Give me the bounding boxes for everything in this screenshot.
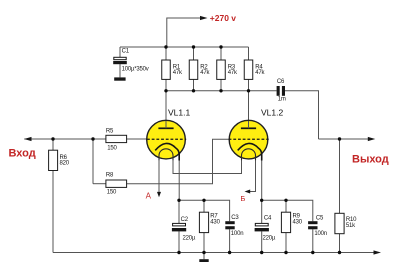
svg-text:VL1.1: VL1.1 [168,107,190,117]
wire C5 bottom lead [312,229,314,252]
tube VL1.1 [147,120,187,160]
svg-text:C4: C4 [264,216,272,222]
svg-text:150: 150 [107,145,117,151]
svg-text:C2: C2 [181,217,189,223]
wire output line [319,138,372,140]
svg-text:47k: 47k [255,70,265,76]
resistor R7 430 [199,212,220,232]
svg-text:150: 150 [107,190,117,196]
svg-text:220µ: 220µ [183,235,196,241]
wire R1 leads [165,47,167,60]
node dots ground rail [177,251,341,254]
svg-text:430: 430 [293,219,303,225]
capacitor C2 220u electrolytic [172,200,196,241]
wire VL1.2 heater leg to point B [250,156,256,192]
svg-text:220µ: 220µ [263,235,276,241]
wire R7 leads [203,200,205,212]
svg-text:47k: 47k [228,70,238,76]
wire anode rail [166,90,277,92]
grid VL1.1 [147,138,186,140]
grid VL1.2 [229,138,269,140]
node dots cathode network rails [177,199,287,202]
resistor R5 150 [106,128,127,151]
wire VL1.1 heater leg to point A [158,156,160,193]
wire ground symbol stub [203,253,205,260]
arrow ground rail end [374,250,382,254]
wire R9 leads [285,200,287,212]
envelope VL1.1 [147,120,186,159]
svg-text:Выход: Выход [352,153,389,165]
wire input line [24,138,106,140]
capacitor C3 100n [225,215,243,237]
wire R6 bottom lead to ground rail [52,171,54,253]
wire VL1.1 anode lead [165,91,167,121]
node dots top rail [164,45,222,48]
wire VL1.1 cathode lead [178,153,180,200]
node dots input line [51,137,94,140]
svg-text:+270 v: +270 v [210,13,237,23]
wire C2 bottom lead [178,231,180,252]
svg-text:100µ*350v: 100µ*350v [122,66,149,72]
wire R8 branch vertical [92,139,94,184]
cathode VL1.2 [238,143,262,160]
svg-text:R5: R5 [106,128,114,134]
wire R6 top lead [52,139,54,150]
node dot output line [338,137,341,140]
svg-text:C6: C6 [277,79,285,85]
svg-text:51k: 51k [346,223,356,229]
ground symbol C1 [114,77,125,80]
anode VL1.2 [241,127,256,129]
wire R10 top lead [339,139,341,213]
wire VL1.2 cathode lead [261,153,263,200]
resistor R10 51k [335,213,357,233]
svg-text:47k: 47k [173,70,183,76]
resistor R1 47k [162,60,183,79]
capacitor C4 220u electrolytic [255,200,276,241]
resistor R3 47k [217,60,238,79]
svg-text:430: 430 [210,219,220,225]
wire VL1.2 anode lead [248,91,250,121]
svg-text:VL1.2: VL1.2 [261,107,283,117]
capacitor C1 (electrolytic 100u/350v) [113,48,149,72]
resistor R8 150 [106,173,127,196]
wire heater link VL1.1 to VL1.2 [173,156,242,174]
arrow point A [157,192,161,197]
svg-text:100n: 100n [231,231,244,237]
svg-text:C3: C3 [231,215,239,221]
capacitor C5 100n [308,216,327,237]
resistor R6 820 [49,150,70,170]
wire R4 leads [248,47,250,60]
wire R5 to VL1.1 grid [127,138,148,140]
svg-text:C5: C5 [316,216,324,222]
arrow input [24,137,32,141]
wire C1 top stub [119,47,121,57]
wire R2 leads [193,47,195,60]
arrow point Б [245,190,251,194]
node dots anode rail [164,89,250,92]
resistor R4 47k [244,60,265,79]
envelope VL1.2 [229,120,268,159]
wire top supply rail [120,46,249,48]
resistor R2 47k [189,60,210,79]
wire C1 bottom lead [119,64,121,77]
heater VL1.1 [159,149,173,160]
wire C4 bottom lead [261,231,263,252]
wire +270V stub vertical [167,18,203,47]
svg-text:C1: C1 [122,48,130,54]
svg-text:1m: 1m [278,96,286,102]
wire R3 leads [220,47,222,60]
arrow output [368,137,376,141]
tube VL1.2 [229,120,269,160]
heater VL1.2 [242,149,256,160]
wire R8 to VL1.2 grid [127,139,229,183]
arrow +270 v [200,16,208,20]
wire C6 right to corner then down to output [285,91,319,139]
svg-text:А: А [146,191,152,200]
svg-text:Б: Б [240,194,245,203]
anode VL1.1 [158,127,173,129]
svg-text:R8: R8 [106,173,114,179]
cathode VL1.1 [155,143,179,160]
wire cathode network 2 rail [262,200,313,221]
svg-text:47k: 47k [200,70,210,76]
ground symbol under R7 [199,259,208,262]
wire R10 bottom lead [339,234,341,253]
wire cathode network 1 rail [179,200,230,221]
svg-text:820: 820 [60,160,70,166]
resistor R9 430 [281,212,302,232]
svg-text:Вход: Вход [9,148,36,160]
svg-text:100n: 100n [314,231,327,237]
wire C3 bottom lead [229,229,231,252]
capacitor C6 1m [277,79,286,102]
wire R8 left lead [93,183,106,185]
wire ground rail [53,252,378,254]
